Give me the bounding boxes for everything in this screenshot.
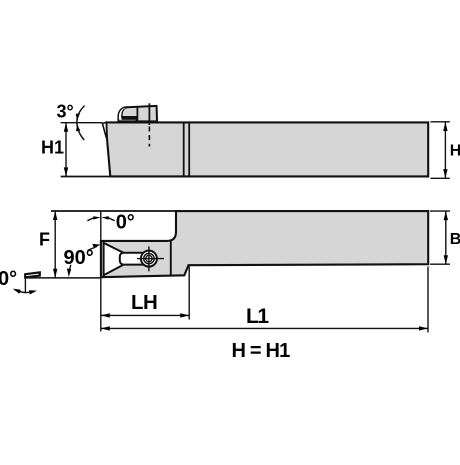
0 deg bottom arc right arrowhead [29,290,37,294]
insert end view leader line [24,278,26,294]
tool body plan view [101,211,428,277]
3 deg lower arrowhead [76,124,80,131]
dimension H line [444,122,446,178]
0 deg top right arrow [108,218,114,221]
screw outer circle [141,251,157,267]
top edge extension line plan [51,210,176,212]
LH arrow left [101,313,110,317]
insert triangle plan view [104,243,135,275]
svg-text:H1: H1 [41,138,64,158]
H1 arrow up [64,123,68,132]
clamp front white area [119,108,126,120]
clamp nose tip thick line [122,117,137,120]
F arrow down [53,269,57,278]
dimension B line [445,211,447,264]
dimension H1 line [65,123,67,177]
pocket end line plan view [170,241,172,276]
screw inner circle [146,255,152,261]
dimension H1 extension top [61,122,103,124]
clamp screw centerline dashed [148,127,150,147]
svg-text:0°: 0° [116,212,135,234]
svg-text:H: H [450,143,460,160]
0 deg bottom arc left arrowhead [13,289,21,294]
3 deg angle arc [77,106,85,140]
insert slot [120,253,153,265]
dimension L1 line [101,327,428,329]
svg-text:L1: L1 [246,305,269,328]
dimension H extension top [431,121,450,123]
dimension B extension top [430,210,450,212]
insert end view parallelogram [25,272,40,277]
B arrow down [444,255,448,264]
dimension B extension bottom [430,263,450,265]
svg-text:H = H1: H = H1 [232,340,291,362]
B arrow up [444,211,448,220]
svg-text:F: F [39,230,50,250]
svg-text:3°: 3° [57,101,74,121]
dimension H1 extension bottom [61,176,110,178]
head end line side view [183,122,185,176]
svg-text:B: B [450,231,460,248]
screw crosshair vertical [148,246,150,271]
clamp nose [122,107,137,121]
dimension F line [54,211,56,278]
screw crosshair horizontal [137,258,164,260]
LH right extension line [188,267,190,320]
pocket line side view [188,122,190,176]
F arrow up [53,211,57,220]
tip vertical extension line [100,211,102,332]
90 deg upper arrow [88,246,98,250]
svg-text:0°: 0° [0,268,17,290]
0 deg bottom arc [15,290,36,293]
clamp divider line [136,107,138,122]
F bottom extension line [25,277,101,279]
L1 right extension line [427,267,429,333]
H arrow up [443,122,447,131]
clamp screw centerline solid [148,103,150,125]
screw middle circle [144,253,154,263]
H1 arrow down [64,167,68,176]
LH arrow right [180,313,189,317]
dimension H extension bottom [431,177,450,179]
L1 arrow right [419,326,428,330]
insert side view sliver [102,122,107,137]
L1 arrow left [101,326,110,330]
dimension LH line [101,314,189,316]
0 deg top left arrow [87,218,93,221]
tool body side view [106,122,428,176]
3 deg upper arrowhead [76,114,80,121]
H arrow down [443,169,447,178]
clamp [118,106,157,122]
90 deg lower arrow [69,265,71,274]
svg-text:LH: LH [131,291,157,314]
